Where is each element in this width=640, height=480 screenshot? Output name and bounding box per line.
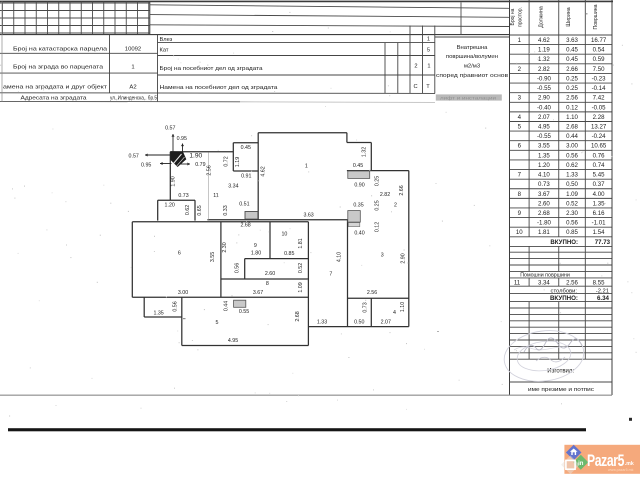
svg-text:0.57: 0.57	[165, 125, 175, 131]
svg-text:1.35: 1.35	[593, 200, 605, 207]
svg-text:1.81: 1.81	[298, 238, 304, 248]
svg-text:м2/м3: м2/м3	[464, 64, 481, 70]
svg-text:0.85: 0.85	[284, 251, 294, 257]
svg-text:1.32: 1.32	[538, 56, 550, 63]
svg-text:1.19: 1.19	[538, 47, 550, 54]
svg-text:Намена на посебниот дел од згр: Намена на посебниот дел од зградата	[160, 85, 279, 91]
svg-text:С: С	[413, 84, 417, 90]
svg-text:-0.55: -0.55	[537, 133, 552, 140]
svg-text:1.20: 1.20	[165, 203, 175, 209]
svg-text:5: 5	[427, 48, 430, 54]
svg-text:0.25: 0.25	[566, 75, 578, 82]
svg-text:амена на зградата и друг објек: амена на зградата и друг објект	[3, 84, 107, 90]
svg-text:8: 8	[266, 281, 269, 287]
svg-text:4.95: 4.95	[538, 123, 550, 130]
svg-text:2.90: 2.90	[400, 253, 406, 263]
svg-text:2.66: 2.66	[566, 66, 578, 73]
svg-text:0.59: 0.59	[593, 56, 605, 63]
svg-text:0.25: 0.25	[375, 176, 381, 186]
svg-text:0.37: 0.37	[593, 181, 605, 188]
svg-text:7.50: 7.50	[593, 66, 605, 73]
svg-text:0.95: 0.95	[141, 163, 151, 169]
svg-text:3.34: 3.34	[538, 280, 550, 287]
svg-text:А2: А2	[129, 84, 136, 90]
svg-text:2: 2	[394, 202, 397, 208]
svg-text:0.57: 0.57	[129, 153, 139, 159]
svg-text:2.82: 2.82	[380, 192, 390, 198]
svg-text:0.40: 0.40	[354, 230, 364, 236]
svg-text:0.12: 0.12	[375, 222, 381, 232]
svg-text:3.55: 3.55	[538, 143, 550, 150]
svg-text:2.28: 2.28	[593, 114, 605, 121]
svg-text:-0.55: -0.55	[537, 85, 552, 92]
svg-text:2: 2	[414, 64, 417, 70]
svg-text:.mk: .mk	[625, 461, 634, 467]
svg-text:3.00: 3.00	[178, 290, 188, 296]
svg-text:0.33: 0.33	[223, 205, 229, 215]
svg-text:1.10: 1.10	[566, 114, 578, 121]
svg-text:0.45: 0.45	[566, 56, 578, 63]
svg-text:3.63: 3.63	[303, 213, 313, 219]
svg-text:1.09: 1.09	[298, 282, 304, 292]
svg-text:13.27: 13.27	[591, 123, 607, 130]
svg-text:Кат: Кат	[160, 48, 169, 54]
svg-text:2.56: 2.56	[367, 290, 377, 296]
svg-text:ВКУПНО:: ВКУПНО:	[550, 239, 578, 246]
svg-text:0.45: 0.45	[353, 163, 363, 169]
svg-text:0.74: 0.74	[593, 162, 605, 169]
svg-text:10092: 10092	[125, 46, 141, 52]
svg-text:4.95: 4.95	[228, 338, 238, 344]
svg-text:0.56: 0.56	[173, 301, 179, 311]
svg-text:1.81: 1.81	[538, 229, 550, 236]
svg-text:4: 4	[393, 310, 396, 316]
svg-text:1: 1	[131, 65, 134, 71]
svg-text:2.82: 2.82	[538, 66, 550, 73]
svg-text:1: 1	[427, 37, 430, 43]
svg-text:3.34: 3.34	[228, 184, 238, 190]
svg-text:3.67: 3.67	[253, 290, 263, 296]
svg-text:Ширина: Ширина	[566, 7, 572, 26]
svg-text:16.77: 16.77	[591, 37, 607, 44]
svg-text:1.90: 1.90	[189, 153, 202, 160]
svg-text:0.91: 0.91	[241, 173, 251, 179]
svg-text:www.pazar5.mk: www.pazar5.mk	[608, 468, 634, 472]
svg-text:77.73: 77.73	[595, 239, 611, 246]
svg-text:2.56: 2.56	[566, 95, 578, 102]
svg-text:0.79: 0.79	[195, 162, 205, 168]
svg-text:4.10: 4.10	[538, 172, 550, 179]
svg-text:0.95: 0.95	[177, 136, 187, 142]
svg-text:0.73: 0.73	[538, 181, 550, 188]
svg-text:10.65: 10.65	[591, 143, 607, 150]
svg-text:2.60: 2.60	[538, 200, 550, 207]
svg-text:2.68: 2.68	[566, 123, 578, 130]
svg-text:0.25: 0.25	[375, 200, 381, 210]
svg-text:0.62: 0.62	[185, 205, 191, 215]
svg-text:2.30: 2.30	[566, 210, 578, 217]
svg-text:11: 11	[213, 193, 219, 199]
svg-text:Адресата на зградата: Адресата на зградата	[21, 96, 88, 102]
svg-text:2.30: 2.30	[222, 242, 228, 252]
svg-text:1: 1	[427, 64, 430, 70]
svg-text:2.07: 2.07	[381, 320, 391, 326]
svg-text:10: 10	[281, 232, 287, 238]
svg-text:0.51: 0.51	[239, 201, 249, 207]
svg-text:1.19: 1.19	[235, 157, 241, 167]
svg-text:0.12: 0.12	[566, 104, 578, 111]
svg-text:Внатрешна: Внатрешна	[457, 45, 489, 51]
svg-text:лифт и инсталации: лифт и инсталации	[440, 95, 497, 100]
svg-text:4.62: 4.62	[260, 166, 266, 176]
svg-text:1.54: 1.54	[593, 229, 605, 236]
svg-text:0.73: 0.73	[362, 302, 368, 312]
svg-text:-1.01: -1.01	[592, 220, 607, 227]
svg-text:4.00: 4.00	[593, 191, 605, 198]
svg-text:1.35: 1.35	[538, 152, 550, 159]
svg-text:-0.14: -0.14	[592, 85, 607, 92]
svg-text:0.50: 0.50	[354, 320, 364, 326]
svg-text:8.55: 8.55	[593, 280, 605, 287]
svg-text:5.45: 5.45	[593, 172, 605, 179]
svg-text:1.35: 1.35	[153, 310, 163, 316]
svg-text:Број на зграда во парцелата: Број на зграда во парцелата	[13, 65, 104, 71]
svg-text:простор.: простор.	[518, 7, 524, 27]
svg-text:1.09: 1.09	[566, 191, 578, 198]
svg-text:0.62: 0.62	[566, 162, 578, 169]
svg-text:0.44: 0.44	[223, 301, 229, 311]
svg-text:1.20: 1.20	[538, 162, 550, 169]
svg-text:име презиме и потпис: име презиме и потпис	[528, 387, 594, 393]
svg-text:Број на посебниот дел од зград: Број на посебниот дел од зградата	[160, 66, 264, 72]
svg-text:1.80: 1.80	[251, 250, 261, 256]
svg-text:0.35: 0.35	[353, 202, 363, 208]
svg-text:0.44: 0.44	[566, 133, 578, 140]
svg-text:1.33: 1.33	[566, 172, 578, 179]
svg-text:според правниот основ: според правниот основ	[436, 73, 508, 79]
svg-text:1.33: 1.33	[317, 320, 327, 326]
svg-text:0.56: 0.56	[566, 220, 578, 227]
svg-text:-0.05: -0.05	[592, 104, 607, 111]
svg-text:2.56: 2.56	[206, 165, 212, 175]
svg-text:0.85: 0.85	[566, 229, 578, 236]
svg-text:9: 9	[254, 243, 257, 249]
svg-text:0.56: 0.56	[234, 263, 240, 273]
svg-text:-0.40: -0.40	[537, 104, 552, 111]
svg-text:0.45: 0.45	[241, 145, 251, 151]
svg-text:2.56: 2.56	[566, 280, 578, 287]
svg-text:1: 1	[305, 164, 308, 170]
svg-text:-0.24: -0.24	[592, 133, 607, 140]
svg-text:2.90: 2.90	[538, 95, 550, 102]
svg-text:11: 11	[514, 280, 521, 287]
svg-text:Должина: Должина	[539, 6, 545, 28]
svg-text:1.32: 1.32	[361, 147, 367, 157]
svg-text:0.90: 0.90	[354, 183, 364, 189]
svg-text:4.10: 4.10	[336, 252, 342, 262]
svg-text:2.07: 2.07	[538, 114, 550, 121]
svg-text:-1.80: -1.80	[537, 220, 552, 227]
svg-text:3: 3	[381, 253, 384, 259]
svg-text:4.62: 4.62	[538, 37, 550, 44]
svg-text:1.10: 1.10	[400, 302, 406, 312]
svg-text:Влез: Влез	[160, 37, 173, 43]
svg-text:Површина: Површина	[593, 4, 599, 29]
svg-text:0.72: 0.72	[223, 156, 229, 166]
svg-text:0.54: 0.54	[593, 47, 605, 54]
svg-text:6: 6	[178, 251, 181, 257]
svg-text:-0.23: -0.23	[592, 75, 607, 82]
svg-text:3.00: 3.00	[566, 143, 578, 150]
svg-text:Број на: Број на	[510, 8, 516, 25]
svg-text:10: 10	[516, 229, 523, 236]
svg-text:6.16: 6.16	[593, 210, 605, 217]
svg-text:2.68: 2.68	[538, 210, 550, 217]
svg-text:2.68: 2.68	[295, 311, 301, 321]
svg-text:0.73: 0.73	[178, 193, 188, 199]
svg-text:0.52: 0.52	[566, 200, 578, 207]
svg-text:ул.,Илинденска,. бр.5: ул.,Илинденска,. бр.5	[110, 96, 157, 102]
svg-text:0.76: 0.76	[593, 152, 605, 159]
svg-text:2.68: 2.68	[240, 223, 250, 229]
svg-text:3.55: 3.55	[210, 252, 216, 262]
svg-text:2.66: 2.66	[399, 185, 405, 195]
svg-text:1.90: 1.90	[171, 176, 177, 186]
svg-text:0.65: 0.65	[197, 205, 203, 215]
svg-text:7: 7	[329, 271, 332, 277]
svg-text:0.52: 0.52	[298, 263, 304, 273]
svg-text:-0.90: -0.90	[537, 75, 552, 82]
svg-text:5: 5	[216, 320, 219, 326]
svg-text:Број на катастарска парцела: Број на катастарска парцела	[13, 46, 108, 52]
svg-text:3.63: 3.63	[566, 37, 578, 44]
svg-text:површина/волумен: површина/волумен	[446, 54, 498, 60]
svg-text:0.25: 0.25	[566, 85, 578, 92]
svg-text:0.56: 0.56	[566, 152, 578, 159]
svg-text:Т: Т	[426, 84, 430, 90]
svg-text:0.45: 0.45	[566, 47, 578, 54]
svg-text:0.55: 0.55	[239, 309, 249, 315]
svg-text:7.42: 7.42	[593, 95, 605, 102]
svg-text:3.67: 3.67	[538, 191, 550, 198]
svg-text:2.60: 2.60	[265, 271, 275, 277]
svg-text:0.50: 0.50	[566, 181, 578, 188]
